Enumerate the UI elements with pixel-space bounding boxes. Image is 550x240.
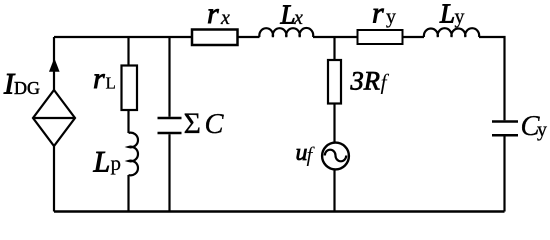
svg-text:r: r: [207, 0, 219, 30]
svg-text:r: r: [372, 0, 384, 30]
svg-text:f: f: [381, 70, 390, 95]
svg-text:x: x: [220, 7, 230, 29]
svg-text:f: f: [307, 143, 316, 167]
svg-text:p: p: [111, 151, 122, 175]
svg-text:L: L: [93, 146, 111, 179]
svg-text:r: r: [93, 62, 105, 95]
svg-text:L: L: [106, 74, 116, 93]
svg-text:DG: DG: [14, 78, 40, 98]
svg-text:Σ: Σ: [184, 107, 201, 140]
svg-text:y: y: [455, 6, 465, 28]
svg-text:C: C: [205, 109, 225, 140]
svg-text:x: x: [293, 7, 303, 29]
svg-text:3R: 3R: [350, 66, 380, 96]
svg-text:L: L: [439, 0, 455, 29]
svg-text:y: y: [386, 6, 396, 28]
svg-text:y: y: [537, 119, 547, 141]
